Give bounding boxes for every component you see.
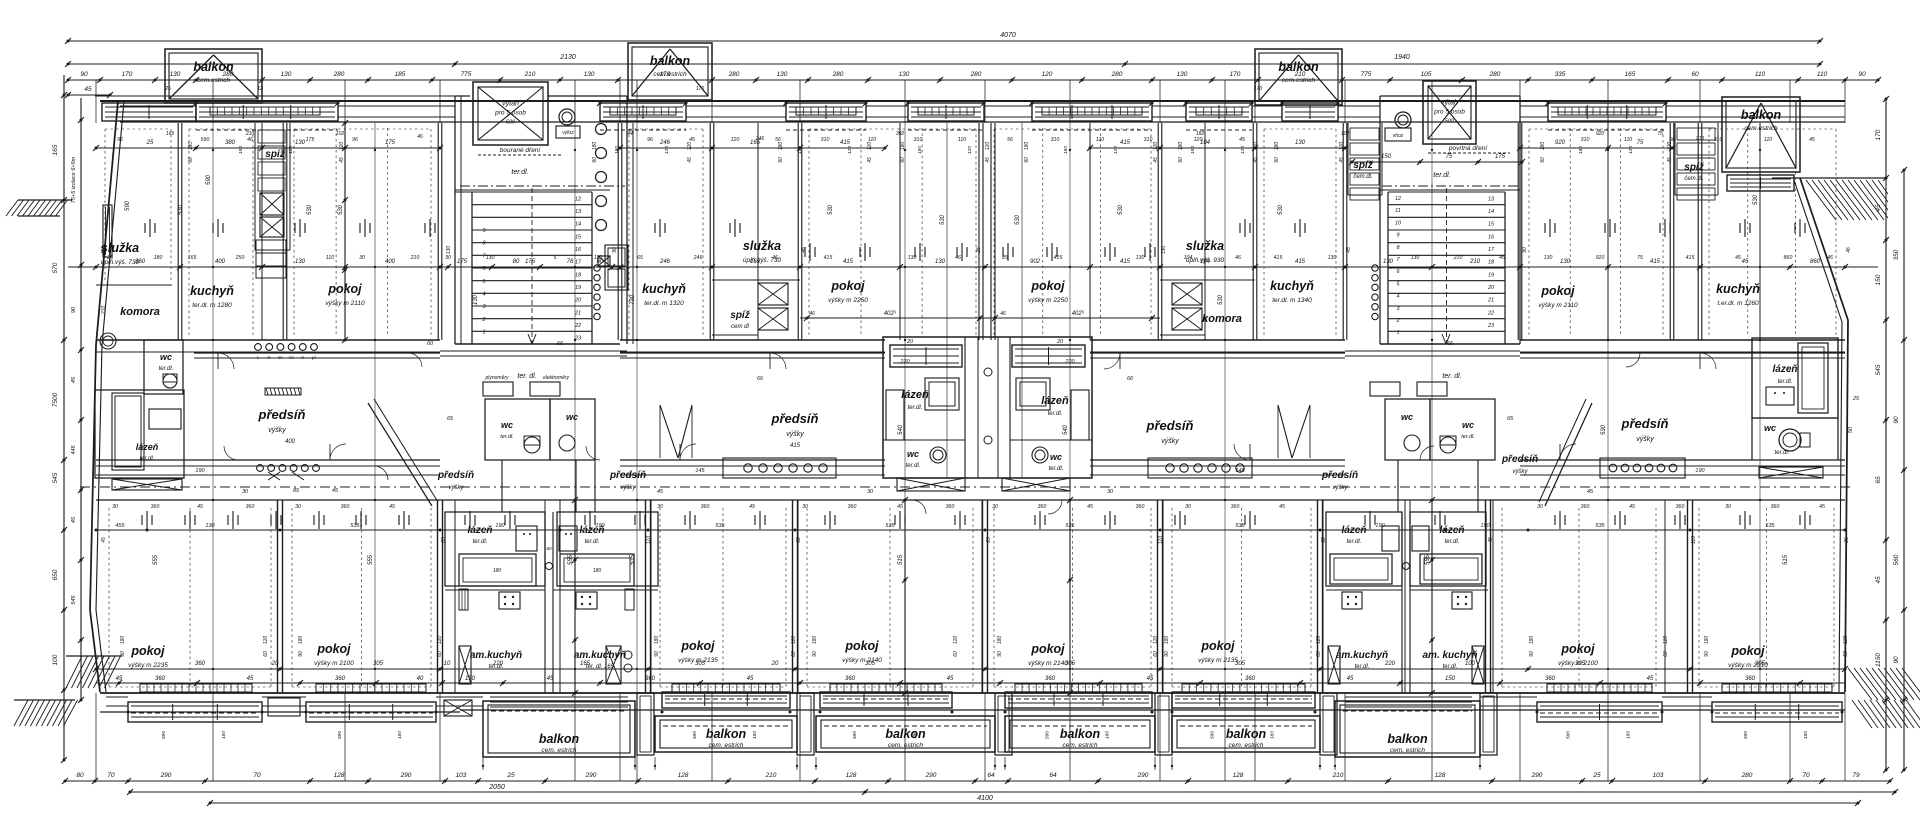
fridge xbox right: [606, 646, 621, 684]
elevator left: [473, 82, 548, 145]
svg-text:30: 30: [1537, 504, 1543, 510]
svg-text:pokoj: pokoj: [844, 639, 879, 653]
svg-text:předsíň: předsíň: [771, 411, 819, 426]
svg-text:25: 25: [1592, 772, 1601, 779]
top dimension chain: [68, 79, 1878, 81]
svg-text:360: 360: [1545, 676, 1556, 682]
svg-text:4100: 4100: [977, 795, 993, 802]
svg-text:45: 45: [332, 488, 339, 494]
svg-text:výšky: výšky: [449, 485, 465, 491]
svg-text:90: 90: [1164, 651, 1170, 657]
svg-text:120: 120: [1628, 146, 1634, 154]
svg-text:45: 45: [1339, 157, 1345, 163]
svg-text:165: 165: [1625, 71, 1636, 78]
balcony top B1: [165, 49, 262, 103]
svg-text:21: 21: [1487, 298, 1494, 304]
svg-text:výšky: výšky: [786, 431, 804, 438]
svg-text:130: 130: [473, 294, 479, 305]
svg-text:komora: komora: [120, 306, 160, 318]
svg-text:cem.estrich: cem.estrich: [1744, 125, 1778, 132]
svg-text:56: 56: [775, 137, 781, 143]
sluzka komora divider left: [96, 284, 172, 286]
svg-text:pro 5 osob: pro 5 osob: [494, 110, 526, 117]
svg-text:45: 45: [1253, 157, 1259, 163]
top dimension line 4070: [68, 40, 1820, 42]
svg-text:předsíň: předsíň: [258, 407, 306, 422]
washbasin right lazen: [559, 526, 577, 551]
svg-text:530: 530: [178, 204, 184, 215]
svg-text:25: 25: [1844, 537, 1850, 544]
svg-text:104: 104: [1184, 255, 1193, 261]
svg-text:45: 45: [1735, 255, 1741, 261]
svg-text:180: 180: [1024, 142, 1030, 151]
svg-text:90: 90: [120, 651, 126, 657]
svg-text:515: 515: [1783, 554, 1789, 565]
svg-text:90: 90: [654, 651, 660, 657]
svg-text:110: 110: [646, 536, 652, 544]
svg-text:920: 920: [1596, 255, 1605, 261]
pier box sw: [268, 698, 300, 716]
svg-text:19: 19: [1488, 272, 1494, 278]
vertical dim chain x345: [344, 123, 346, 340]
svg-text:120: 120: [1153, 636, 1159, 645]
svg-text:20: 20: [1056, 339, 1064, 345]
svg-text:výšky m 2140: výšky m 2140: [1028, 660, 1068, 667]
svg-text:305: 305: [865, 661, 876, 667]
svg-text:90: 90: [778, 157, 784, 163]
svg-text:130: 130: [777, 71, 788, 78]
svg-text:75: 75: [1637, 255, 1643, 261]
svg-text:cem. estrich: cem. estrich: [1390, 747, 1425, 754]
bottom dimension line 2050: [130, 791, 1895, 793]
svg-text:30: 30: [992, 504, 998, 510]
svg-text:360: 360: [845, 676, 856, 682]
svg-text:360: 360: [335, 676, 346, 682]
wall below tubs: [445, 589, 545, 591]
svg-text:360: 360: [848, 504, 857, 510]
svg-text:175: 175: [1495, 154, 1506, 160]
svg-text:7500: 7500: [52, 392, 59, 407]
svg-text:80: 80: [76, 772, 84, 779]
svg-text:12: 12: [575, 196, 581, 202]
svg-text:290: 290: [1137, 772, 1149, 779]
svg-text:210: 210: [101, 306, 107, 316]
svg-text:předsíň: předsíň: [609, 470, 646, 481]
svg-text:20: 20: [1487, 285, 1495, 291]
svg-text:výtah: výtah: [1441, 100, 1458, 107]
balcony piers: [637, 693, 654, 755]
svg-text:555: 555: [1425, 554, 1431, 565]
stair bay dashdot left: [460, 185, 625, 187]
svg-text:190: 190: [1480, 523, 1490, 529]
center party wall 4-line: [978, 123, 980, 340]
svg-text:120: 120: [1253, 142, 1259, 151]
axis ticks south rooms: [141, 515, 143, 525]
spiz crossed boxes left: [260, 193, 284, 215]
svg-text:4: 4: [1396, 294, 1399, 300]
svg-text:45: 45: [1239, 137, 1245, 143]
svg-text:165: 165: [101, 246, 107, 255]
svg-text:10: 10: [1395, 220, 1402, 226]
doormat hatch: [265, 388, 301, 395]
svg-text:555: 555: [153, 554, 159, 565]
svg-text:180: 180: [221, 731, 227, 739]
balcony bottom dims: [482, 757, 484, 770]
staircase right landing: [1380, 343, 1520, 345]
svg-text:65: 65: [1875, 476, 1882, 484]
svg-text:130: 130: [295, 259, 306, 265]
svg-text:220: 220: [1064, 359, 1075, 365]
svg-text:30: 30: [1107, 489, 1114, 495]
svg-text:výšky m 2135: výšky m 2135: [1198, 657, 1238, 664]
svg-text:180: 180: [1274, 142, 1280, 151]
svg-text:30: 30: [359, 255, 365, 261]
svg-text:60: 60: [1316, 651, 1322, 657]
splay wall right stair: [1545, 403, 1592, 506]
stair bay bottom wall right: [1345, 355, 1520, 357]
svg-text:590: 590: [1045, 731, 1051, 739]
svg-text:45: 45: [867, 157, 873, 163]
svg-text:kuchyň: kuchyň: [1716, 282, 1760, 296]
svg-text:30: 30: [1725, 504, 1731, 510]
svg-text:150: 150: [1445, 676, 1456, 682]
svg-text:102: 102: [336, 131, 345, 137]
svg-text:535: 535: [630, 554, 636, 565]
svg-text:110: 110: [1691, 536, 1697, 544]
svg-text:180: 180: [493, 568, 502, 574]
svg-text:415: 415: [790, 443, 801, 449]
svg-text:46: 46: [1000, 311, 1006, 317]
stair bay left outline: [454, 96, 456, 344]
svg-text:165: 165: [188, 255, 197, 261]
svg-text:120: 120: [967, 146, 973, 154]
corridor axis dashline: [80, 486, 1850, 488]
svg-text:360: 360: [946, 504, 955, 510]
svg-text:46: 46: [1235, 255, 1241, 261]
svg-text:120: 120: [1663, 636, 1669, 645]
vertical dim chain x905s: [904, 500, 906, 693]
svg-text:590: 590: [201, 137, 210, 143]
svg-text:ter.dl.: ter.dl.: [908, 405, 923, 411]
svg-text:130: 130: [899, 71, 910, 78]
svg-text:415: 415: [843, 259, 854, 265]
svg-text:90: 90: [298, 651, 304, 657]
svg-text:25: 25: [146, 140, 154, 146]
svg-text:360: 360: [195, 661, 206, 667]
svg-text:90: 90: [900, 157, 906, 163]
center cross beams: [897, 478, 965, 491]
dim row south upper: [96, 668, 1845, 670]
wc small left1: [485, 399, 550, 460]
svg-text:290: 290: [1531, 772, 1543, 779]
svg-text:210: 210: [1332, 772, 1344, 779]
fridge xboxes right block: [1328, 646, 1340, 684]
svg-text:380: 380: [225, 140, 236, 146]
svg-text:180: 180: [298, 636, 304, 645]
svg-text:45: 45: [1809, 137, 1815, 143]
tub right horizontal: [560, 554, 634, 586]
splay wall left stair: [368, 403, 432, 506]
svg-text:30: 30: [295, 504, 301, 510]
svg-text:balkon: balkon: [193, 60, 234, 74]
coat shelf center-right: [1148, 458, 1252, 478]
radiator strip left: [459, 589, 468, 610]
svg-text:290: 290: [925, 772, 937, 779]
svg-text:předsíň: předsíň: [1501, 454, 1538, 465]
svg-text:220: 220: [899, 359, 910, 365]
south rooms dashed interiors: [108, 508, 110, 687]
svg-text:cem dl: cem dl: [731, 324, 749, 330]
svg-text:ter.dl.: ter.dl.: [1445, 539, 1460, 545]
svg-text:415: 415: [840, 140, 851, 146]
svg-text:130: 130: [1383, 259, 1394, 265]
svg-text:310: 310: [1051, 137, 1060, 143]
center wc dividers: [883, 439, 965, 441]
svg-text:46: 46: [247, 137, 253, 143]
svg-text:130: 130: [1177, 71, 1188, 78]
svg-text:45: 45: [1346, 247, 1352, 253]
svg-text:120: 120: [1153, 142, 1159, 151]
balcony bottom A: [483, 701, 635, 757]
svg-text:250: 250: [235, 255, 245, 261]
svg-text:65: 65: [447, 416, 454, 422]
pier xbox mid: [444, 700, 472, 716]
svg-text:280: 280: [728, 71, 740, 78]
spiz partition stair right: [1347, 123, 1349, 195]
svg-text:100: 100: [1465, 661, 1476, 667]
more door arcs: [408, 353, 422, 367]
svg-text:30: 30: [802, 504, 808, 510]
svg-text:10: 10: [444, 661, 451, 667]
svg-text:110: 110: [1764, 137, 1772, 143]
svg-text:ter.dl. m 1280: ter.dl. m 1280: [192, 302, 232, 309]
balcony top B4 right: [1722, 97, 1800, 172]
spiz lower shelves: [256, 240, 286, 278]
svg-text:výšky m 2250: výšky m 2250: [828, 297, 868, 304]
coat hooks bottom: [257, 465, 264, 472]
svg-text:plynoměry: plynoměry: [484, 375, 509, 381]
svg-text:102: 102: [1341, 131, 1350, 137]
svg-text:290: 290: [400, 772, 412, 779]
coat shelf center-left: [723, 458, 836, 478]
svg-text:46: 46: [809, 311, 815, 317]
svg-text:105: 105: [1421, 71, 1432, 78]
svg-text:350: 350: [1893, 249, 1900, 260]
svg-text:17: 17: [575, 260, 582, 266]
svg-text:výtah: výtah: [502, 101, 519, 108]
balcony bottom E: [1172, 716, 1320, 752]
meter cabinets mid-left: [483, 382, 513, 396]
svg-text:175: 175: [385, 140, 396, 146]
svg-text:150: 150: [1381, 154, 1392, 160]
vhoz box right: [1385, 128, 1411, 141]
staircase right treads: [1388, 191, 1505, 193]
svg-text:60: 60: [1663, 651, 1669, 657]
crossed pantry boxes center-right: [1172, 283, 1202, 305]
svg-text:vhoz: vhoz: [1393, 133, 1404, 139]
svg-text:66: 66: [757, 376, 764, 382]
svg-text:64: 64: [1049, 772, 1057, 779]
svg-text:70: 70: [253, 772, 261, 779]
svg-text:555: 555: [568, 554, 574, 565]
svg-text:128: 128: [334, 772, 345, 779]
svg-text:530: 530: [940, 214, 946, 225]
svg-text:110: 110: [1755, 71, 1766, 78]
svg-text:45: 45: [747, 676, 754, 682]
svg-text:wc: wc: [1050, 452, 1062, 462]
svg-text:cem.estrich: cem.estrich: [653, 71, 687, 78]
svg-text:spíž: spíž: [265, 149, 285, 160]
svg-text:590: 590: [852, 731, 858, 739]
svg-text:70: 70: [107, 772, 115, 779]
svg-text:IV.: IV.: [289, 355, 294, 360]
svg-text:cem.estrich: cem.estrich: [197, 77, 231, 84]
svg-text:předsíň: předsíň: [437, 470, 474, 481]
svg-text:60: 60: [791, 651, 797, 657]
svg-text:130: 130: [1560, 259, 1571, 265]
south band top wall: [96, 499, 1845, 501]
north window radiators: [210, 107, 320, 115]
svg-text:280: 280: [1489, 71, 1501, 78]
svg-text:110: 110: [1096, 137, 1104, 143]
svg-text:60: 60: [427, 341, 434, 347]
svg-text:90: 90: [1522, 247, 1528, 253]
staircase left landing lines: [455, 191, 472, 193]
svg-text:305: 305: [1755, 661, 1766, 667]
axis ticks center rooms: [804, 247, 806, 257]
through lines center rooms: [946, 123, 948, 478]
svg-text:66: 66: [796, 537, 802, 543]
elevator right: [1423, 81, 1476, 144]
svg-text:cem. estrich: cem. estrich: [888, 742, 923, 749]
svg-text:246: 246: [659, 259, 671, 265]
alcove walls below wc right: [1397, 460, 1399, 512]
right hatch upper: [1806, 180, 1888, 220]
svg-text:180: 180: [154, 255, 163, 261]
wc right zone: [1751, 418, 1753, 460]
axis ticks north rooms: [144, 223, 146, 233]
svg-text:20: 20: [271, 661, 279, 667]
svg-text:46: 46: [801, 247, 807, 253]
stair bay right outline: [1379, 96, 1381, 344]
svg-text:360: 360: [155, 676, 166, 682]
svg-text:14: 14: [1488, 209, 1494, 215]
coat hooks right apt: [1600, 458, 1685, 478]
svg-text:30: 30: [445, 255, 451, 261]
wc left toilet: [163, 374, 177, 388]
stair bay dashdot right: [1382, 185, 1518, 187]
svg-text:305: 305: [373, 661, 384, 667]
dim row stairs left: [448, 266, 612, 268]
svg-text:wc: wc: [501, 420, 513, 430]
center shaft south-left block: [544, 512, 546, 693]
svg-text:45: 45: [1667, 157, 1673, 163]
svg-text:175: 175: [306, 137, 315, 143]
svg-text:730: 730: [630, 294, 636, 305]
right vertical dimension lines: [1885, 99, 1887, 770]
svg-text:210: 210: [1695, 136, 1705, 142]
stove left: [499, 592, 520, 609]
svg-text:wc: wc: [566, 412, 578, 422]
svg-text:16: 16: [1488, 234, 1495, 240]
svg-text:45: 45: [1819, 504, 1825, 510]
svg-text:402⁵: 402⁵: [884, 310, 897, 317]
svg-text:13: 13: [575, 209, 582, 215]
svg-text:130: 130: [170, 71, 181, 78]
svg-text:130: 130: [908, 255, 917, 261]
svg-text:120: 120: [953, 636, 959, 645]
svg-text:535: 535: [1235, 523, 1245, 529]
svg-text:165: 165: [166, 131, 175, 137]
wc small right1: [1385, 399, 1430, 460]
svg-text:65: 65: [441, 537, 447, 543]
svg-text:85: 85: [293, 488, 300, 494]
svg-text:360: 360: [341, 504, 350, 510]
north wall window sills dashed: [196, 129, 338, 131]
svg-text:150: 150: [465, 676, 476, 682]
svg-text:96: 96: [647, 137, 653, 143]
svg-text:280: 280: [970, 71, 982, 78]
svg-text:45: 45: [1153, 157, 1159, 163]
vertical dim chain x575: [574, 500, 576, 693]
svg-text:590: 590: [1743, 731, 1749, 739]
svg-text:64: 64: [987, 772, 995, 779]
svg-text:46: 46: [1827, 255, 1833, 261]
spiz shelves right apt: [1677, 128, 1715, 140]
svg-text:18: 18: [1488, 260, 1495, 266]
sluzka komora divider center: [712, 279, 800, 281]
center block divider shaft: [964, 337, 966, 478]
svg-text:výšky: výšky: [1161, 438, 1179, 445]
svg-text:ter.dl.: ter.dl.: [1049, 466, 1064, 472]
svg-text:ter. dl.: ter. dl.: [517, 373, 536, 380]
svg-text:30: 30: [242, 489, 249, 495]
svg-text:415: 415: [1686, 255, 1695, 261]
dim row south lower: [96, 682, 1845, 684]
coat hooks top: [255, 344, 262, 351]
svg-text:90: 90: [1529, 651, 1535, 657]
svg-text:90: 90: [1858, 71, 1866, 78]
svg-text:služka: služka: [1186, 239, 1224, 253]
svg-text:ter.dl.: ter.dl.: [1433, 172, 1450, 179]
svg-text:180: 180: [1704, 636, 1710, 645]
svg-text:kuchyň: kuchyň: [190, 284, 234, 298]
svg-text:45: 45: [1279, 504, 1285, 510]
stair arrow left: [528, 334, 532, 344]
svg-text:246: 246: [659, 140, 671, 146]
north rooms dashed interiors: [104, 129, 106, 280]
svg-text:45: 45: [1587, 489, 1594, 495]
lazen south-left pair: [445, 512, 545, 586]
svg-text:130: 130: [1136, 255, 1145, 261]
svg-text:pí: pí: [311, 355, 317, 360]
svg-text:90: 90: [1704, 651, 1710, 657]
svg-text:90: 90: [997, 651, 1003, 657]
svg-text:66: 66: [557, 341, 564, 347]
center fixtures left: [925, 378, 959, 410]
svg-text:180: 180: [1190, 146, 1196, 154]
wc right toilet: [1779, 429, 1801, 451]
svg-text:65: 65: [637, 255, 643, 261]
stair bay bottom wall: [440, 355, 627, 357]
svg-text:220: 220: [1384, 661, 1396, 667]
svg-text:4070: 4070: [1000, 32, 1016, 39]
svg-text:590: 590: [1210, 731, 1216, 739]
svg-text:45: 45: [389, 504, 395, 510]
svg-text:302: 302: [896, 131, 905, 137]
svg-text:210: 210: [524, 71, 536, 78]
svg-text:25: 25: [106, 255, 113, 261]
